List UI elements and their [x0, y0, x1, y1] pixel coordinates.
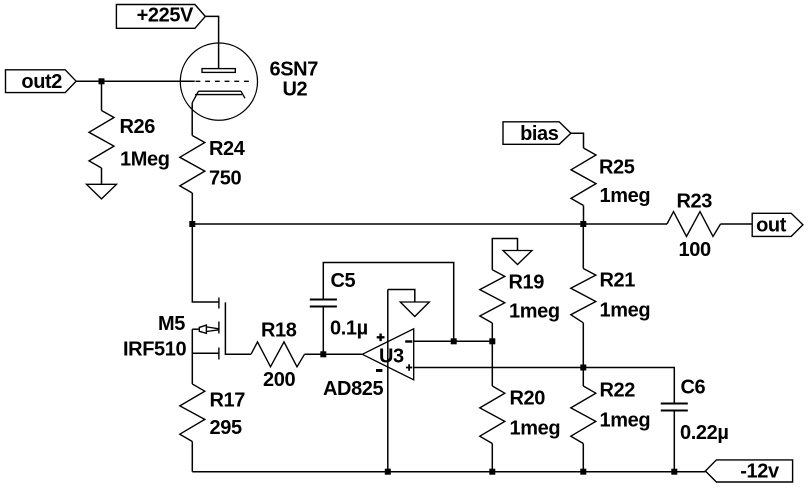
- svg-text:R23: R23: [677, 190, 713, 212]
- svg-text:R21: R21: [600, 270, 636, 292]
- svg-text:R18: R18: [261, 320, 297, 342]
- svg-text:1Meg: 1Meg: [120, 149, 170, 171]
- svg-text:C6: C6: [681, 377, 706, 399]
- svg-text:0.22µ: 0.22µ: [680, 422, 728, 444]
- svg-text:R20: R20: [510, 388, 546, 410]
- svg-text:C5: C5: [331, 270, 356, 292]
- svg-text:200: 200: [263, 369, 295, 391]
- svg-text:+225V: +225V: [137, 5, 194, 27]
- svg-text:bias: bias: [520, 123, 559, 145]
- svg-text:AD825: AD825: [323, 378, 384, 400]
- svg-text:1meg: 1meg: [600, 410, 651, 432]
- svg-text:out: out: [756, 215, 787, 237]
- svg-text:6SN7: 6SN7: [270, 59, 319, 81]
- svg-text:R17: R17: [210, 390, 246, 412]
- svg-text:R24: R24: [209, 138, 246, 160]
- svg-text:R25: R25: [599, 157, 635, 179]
- svg-text:1meg: 1meg: [509, 301, 560, 323]
- svg-text:-12v: -12v: [740, 461, 780, 483]
- svg-text:IRF510: IRF510: [123, 339, 186, 361]
- svg-text:U2: U2: [283, 79, 308, 101]
- svg-text:1meg: 1meg: [600, 300, 651, 322]
- svg-text:750: 750: [209, 168, 241, 190]
- svg-text:100: 100: [679, 239, 711, 261]
- svg-text:M5: M5: [158, 313, 185, 335]
- svg-text:U3: U3: [379, 346, 404, 368]
- svg-text:1meg: 1meg: [600, 185, 651, 207]
- svg-text:0.1µ: 0.1µ: [330, 318, 368, 340]
- svg-text:1meg: 1meg: [510, 418, 561, 440]
- svg-text:R26: R26: [120, 116, 156, 138]
- svg-text:out2: out2: [21, 71, 62, 93]
- svg-text:R22: R22: [600, 380, 636, 402]
- svg-text:R19: R19: [509, 272, 545, 294]
- svg-text:295: 295: [210, 417, 242, 439]
